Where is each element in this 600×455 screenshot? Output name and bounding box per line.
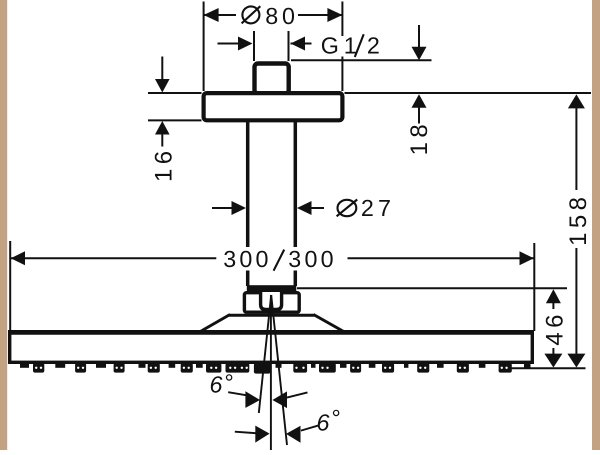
svg-text:G1: G1 — [321, 32, 357, 58]
arrow upper 6deg right-pointing — [245, 391, 260, 408]
arrow dim O27 right — [297, 201, 312, 215]
dim 300/300 dimension line — [11, 257, 534, 259]
pipe nut top bar — [247, 285, 296, 292]
dim G1/2 left extension line — [253, 31, 255, 61]
arrow dim 46 bottom — [544, 354, 562, 368]
arrow upper 6deg left-pointing — [272, 391, 287, 408]
ball joint inner ball — [261, 292, 282, 309]
svg-text:6°: 6° — [210, 370, 233, 398]
arrow dim O27 left — [232, 201, 247, 215]
bottom reference extension line — [508, 367, 586, 369]
trapezoid cone right slant — [314, 315, 345, 333]
arrow dim 18 top — [412, 47, 427, 60]
ball joint nut box — [244, 293, 299, 313]
svg-text:16: 16 — [151, 146, 178, 182]
arrow dim 300/300 right — [520, 251, 534, 265]
dim 300/300 right extension line — [533, 243, 535, 331]
left tan border — [0, 0, 7, 450]
dim 300/300 left extension line — [9, 241, 11, 330]
arrow dim 16 top — [155, 79, 170, 93]
spray right 6 degree line — [271, 295, 287, 445]
dim G1/2 leader lines — [218, 43, 312, 45]
label O27 — [337, 200, 358, 217]
arrow dim O80 right — [327, 8, 342, 22]
lower 6deg leader line — [235, 425, 320, 433]
dim G1/2 right extension line — [288, 31, 290, 61]
trapezoid cone left slant — [200, 315, 231, 333]
spray center line — [270, 295, 272, 450]
dim 158 arrow stems — [575, 108, 577, 354]
svg-text:300: 300 — [223, 246, 271, 272]
right tan border — [592, 0, 600, 450]
arrow dim O80 left — [204, 8, 219, 22]
dim 46 top extension line — [297, 287, 567, 289]
arrow dim 46 top — [546, 289, 561, 303]
arrow dim 16 bottom — [155, 121, 170, 135]
trapezoid cone top edge — [229, 314, 315, 317]
dim 18 extension line — [291, 59, 432, 61]
shower head body — [10, 332, 533, 363]
svg-text:300: 300 — [288, 246, 336, 272]
svg-text:6°: 6° — [317, 405, 340, 436]
svg-text:158: 158 — [565, 193, 592, 246]
svg-text:18: 18 — [406, 120, 433, 156]
svg-text:27: 27 — [361, 195, 395, 221]
dim O80 dimension line — [204, 14, 343, 16]
arrow dim 300/300 left — [11, 251, 25, 265]
arrow lower 6deg right-pointing — [255, 426, 269, 443]
pipe left wall — [246, 121, 250, 286]
spray nozzle row — [20, 363, 531, 374]
dim 16 extension lines — [148, 93, 202, 120]
nozzle dots — [35, 367, 508, 369]
upper 6deg leader line — [228, 392, 307, 397]
shower head top face thick line — [8, 330, 534, 335]
arrow dim 158 top — [568, 94, 585, 108]
dim O27 leader lines — [212, 207, 324, 209]
spray left 6 degree line — [259, 295, 271, 413]
svg-text:46: 46 — [541, 310, 568, 346]
ceiling plate — [204, 93, 343, 120]
svg-text:2: 2 — [367, 32, 380, 58]
G1/2 connector — [255, 64, 289, 94]
svg-text:80: 80 — [265, 3, 299, 29]
arrow lower 6deg left-pointing — [286, 426, 301, 443]
label O80 — [242, 6, 261, 23]
arrow dim 18 bottom — [412, 94, 427, 108]
pipe right wall — [294, 121, 298, 286]
dim 18 arrow stems — [418, 25, 420, 124]
ceiling reference extension line — [345, 92, 592, 94]
dim O80 right extension line — [341, 2, 343, 92]
arrow dim G1/2 right — [291, 37, 306, 51]
dim O80 left extension line — [203, 2, 205, 92]
arrow dim G1/2 left — [238, 37, 253, 51]
dim 46 arrow stems — [552, 303, 554, 354]
dim 16 arrow stems — [161, 57, 163, 147]
arrow dim 158 bottom — [567, 354, 585, 368]
